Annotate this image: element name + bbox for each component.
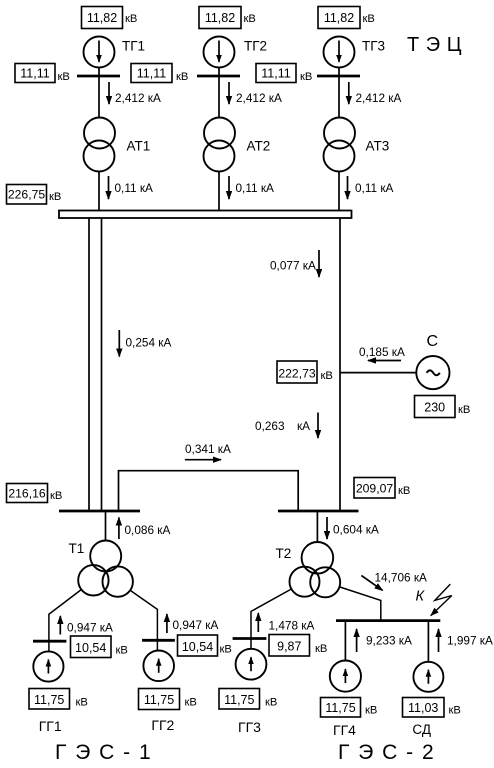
svg-text:С: С	[427, 333, 439, 350]
svg-text:10,54: 10,54	[182, 640, 213, 654]
svg-text:АТ2: АТ2	[247, 139, 271, 154]
voltage box 11,82 (TG1)	[82, 7, 138, 29]
transformer АТ3	[324, 118, 390, 172]
svg-text:0,11 кА: 0,11 кА	[236, 181, 275, 195]
current arrow 1,997 кА	[439, 629, 493, 652]
voltage box 10,54 (ГГ2)	[178, 635, 232, 656]
generator ТГ3	[324, 37, 386, 68]
wire ТГ1 to АТ1	[98, 68, 100, 118]
svg-text:11,82: 11,82	[205, 11, 235, 25]
wire АТ3 to busbar	[338, 171, 340, 210]
svg-text:9,87: 9,87	[277, 640, 301, 654]
svg-text:кВ: кВ	[125, 13, 137, 25]
wire Т1 to ГГ1	[49, 590, 82, 652]
current arrow 1,478 кА (ГГ3)	[258, 613, 314, 633]
svg-text:11,11: 11,11	[261, 67, 290, 81]
svg-text:0,086 кА: 0,086 кА	[125, 523, 171, 537]
wire bus to СД	[427, 622, 429, 662]
svg-text:2,412 кА: 2,412 кА	[115, 91, 161, 105]
svg-text:СД: СД	[412, 722, 431, 737]
current arrow 0,185 кА	[359, 345, 405, 361]
current arrow 0,11 кА (col 2)	[229, 176, 274, 199]
generator ГГ4	[330, 661, 361, 739]
svg-text:кВ: кВ	[244, 13, 256, 25]
voltage box 11,82 (TG2)	[199, 7, 256, 29]
wire АТ1 to busbar	[98, 171, 100, 210]
current arrow 2,412 кА (col 3)	[349, 82, 402, 105]
svg-text:11,03: 11,03	[408, 701, 438, 715]
wire double-circuit line left a	[88, 218, 90, 510]
svg-text:9,233 кА: 9,233 кА	[366, 634, 412, 648]
svg-text:11,82: 11,82	[87, 11, 117, 25]
svg-text:0,604 кА: 0,604 кА	[333, 523, 379, 537]
voltage box 11,75 (ГГ3)	[219, 689, 277, 710]
generator ГГ2	[143, 651, 174, 734]
svg-text:кВ: кВ	[185, 697, 197, 709]
svg-text:кВ: кВ	[49, 191, 61, 203]
current arrow 14,706 кА	[361, 571, 427, 591]
system source C	[416, 333, 449, 389]
wire ТГ2 to АТ2	[218, 68, 220, 118]
svg-text:кА: кА	[297, 419, 310, 433]
wire node to system C	[340, 372, 416, 374]
svg-text:кВ: кВ	[315, 643, 327, 655]
transformer Т1	[69, 541, 133, 597]
svg-text:11,11: 11,11	[20, 67, 49, 81]
svg-text:ГГ3: ГГ3	[238, 719, 261, 735]
svg-text:0,947 кА: 0,947 кА	[67, 621, 113, 635]
bus ГЭС-1 HV	[59, 510, 140, 513]
wire right line	[339, 218, 341, 510]
svg-text:кВ: кВ	[458, 404, 470, 416]
svg-text:222,73: 222,73	[278, 367, 315, 381]
node tick ГГ3	[233, 637, 267, 640]
wire Т2 to ГЭС-2 bus	[340, 587, 381, 620]
svg-text:2,412 кА: 2,412 кА	[236, 91, 282, 105]
svg-text:ТГ3: ТГ3	[362, 39, 385, 54]
svg-text:230: 230	[424, 401, 445, 415]
svg-text:0,263: 0,263	[255, 419, 285, 433]
short-circuit К lightning	[416, 584, 452, 616]
svg-text:1,997 кА: 1,997 кА	[447, 634, 493, 648]
node tick ГГ2	[142, 639, 175, 642]
svg-text:кВ: кВ	[365, 705, 377, 717]
wire tie line	[119, 471, 299, 510]
svg-text:0,11 кА: 0,11 кА	[115, 181, 154, 195]
svg-text:кВ: кВ	[176, 71, 188, 83]
svg-text:0,254 кА: 0,254 кА	[126, 336, 172, 350]
svg-text:ГГ4: ГГ4	[333, 722, 356, 738]
wire Т2 to ГГ3	[251, 589, 291, 649]
current arrow 0,086 кА	[119, 518, 171, 540]
svg-text:АТ1: АТ1	[127, 139, 151, 154]
wire АТ2 to busbar	[218, 171, 220, 210]
svg-text:АТ3: АТ3	[366, 139, 390, 154]
voltage box 11,75 (ГГ2)	[139, 689, 197, 710]
wire bus to Т2	[316, 512, 318, 542]
current arrow 0,341 кА	[185, 442, 231, 460]
svg-text:Т1: Т1	[69, 541, 85, 556]
current arrow 9,233 кА	[357, 629, 412, 652]
wire Т1 to ГГ2	[130, 590, 157, 650]
wire double-circuit line left b	[101, 218, 103, 510]
current arrow 0,947 кА (ГГ1)	[60, 616, 113, 635]
voltage box 209,07	[354, 478, 410, 499]
svg-text:11,75: 11,75	[325, 701, 355, 715]
current arrow 0,11 кА (col 1)	[109, 176, 154, 199]
voltage box 11,75 (ГГ4)	[321, 698, 378, 718]
svg-text:ТГ1: ТГ1	[122, 39, 145, 54]
svg-text:0,185 кА: 0,185 кА	[359, 345, 405, 359]
current arrow 0,254 кА	[119, 330, 171, 357]
svg-text:11,75: 11,75	[144, 693, 174, 707]
node tick ТГ2	[197, 75, 240, 78]
svg-text:0,341 кА: 0,341 кА	[185, 442, 231, 456]
current arrow 0,604 кА	[327, 517, 379, 539]
bus right HV	[278, 510, 359, 513]
svg-text:209,07: 209,07	[356, 482, 393, 496]
voltage box 11,03 (СД)	[403, 698, 461, 718]
svg-text:Т2: Т2	[276, 546, 292, 561]
svg-text:К: К	[416, 589, 426, 605]
node tick ГГ1	[33, 640, 66, 643]
current arrow 2,412 кА (col 1)	[109, 82, 161, 105]
svg-text:кВ: кВ	[449, 705, 461, 717]
voltage box 11,82 (TG3)	[318, 7, 375, 29]
svg-text:кВ: кВ	[116, 645, 128, 657]
generator ГГ3	[236, 649, 267, 735]
current arrow 2,412 кА (col 2)	[229, 82, 282, 105]
generator ТГ2	[204, 37, 268, 68]
svg-text:0,947 кА: 0,947 кА	[173, 618, 219, 632]
node tick ТГ1	[77, 75, 120, 78]
wire ТГ3 to АТ3	[338, 68, 340, 118]
svg-text:кВ: кВ	[321, 370, 333, 382]
node tick ТГ3	[317, 75, 360, 78]
svg-text:11,75: 11,75	[224, 693, 254, 707]
svg-text:ТГ2: ТГ2	[244, 39, 267, 54]
voltage box 11,11 (TG2)	[131, 64, 188, 84]
svg-text:11,75: 11,75	[34, 693, 64, 707]
svg-text:кВ: кВ	[220, 644, 232, 656]
voltage box 11,11 (TG3)	[256, 64, 312, 84]
svg-text:кВ: кВ	[50, 490, 62, 502]
current arrow 0,11 кА (col 3)	[348, 176, 394, 199]
svg-text:226,75: 226,75	[8, 188, 45, 202]
svg-text:Г Э С - 1: Г Э С - 1	[55, 741, 152, 764]
svg-text:кВ: кВ	[398, 485, 410, 497]
generator ГГ1	[33, 651, 63, 734]
svg-text:11,11: 11,11	[137, 67, 166, 81]
current arrow 0,263 кА	[255, 413, 318, 439]
voltage box 11,75 (ГГ1)	[29, 689, 88, 710]
svg-text:кВ: кВ	[265, 697, 277, 709]
svg-text:ГГ2: ГГ2	[151, 717, 174, 733]
voltage box 216,16	[7, 484, 63, 503]
svg-text:кВ: кВ	[363, 13, 375, 25]
wire bus to Т1	[105, 512, 107, 541]
svg-text:1,478 кА: 1,478 кА	[269, 619, 315, 633]
voltage box 222,73	[277, 361, 333, 383]
generator ТГ1	[84, 37, 146, 68]
transformer АТ2	[204, 118, 271, 172]
svg-text:0,11 кА: 0,11 кА	[355, 181, 394, 195]
voltage box 226,75	[7, 185, 62, 205]
voltage box 230	[415, 396, 471, 418]
current arrow 0,947 кА (ГГ2)	[167, 614, 219, 633]
svg-text:ГГ1: ГГ1	[39, 718, 62, 734]
svg-text:кВ: кВ	[58, 71, 70, 83]
wire bus to ГГ4	[344, 622, 346, 661]
svg-text:кВ: кВ	[300, 71, 312, 83]
voltage box 11,11 (TG1)	[15, 64, 70, 84]
svg-text:14,706 кА: 14,706 кА	[375, 571, 428, 585]
current arrow 0,077 кА	[270, 250, 319, 277]
voltage box 10,54 (ГГ1)	[71, 636, 128, 658]
svg-text:кВ: кВ	[76, 697, 88, 709]
svg-text:Г Э С - 2: Г Э С - 2	[338, 741, 435, 764]
transformer Т2	[276, 542, 341, 597]
svg-text:Т Э Ц: Т Э Ц	[407, 34, 462, 56]
voltage box 9,87 (ГГ3)	[269, 635, 327, 657]
svg-text:2,412 кА: 2,412 кА	[356, 91, 402, 105]
busbar 220 кВ	[59, 211, 352, 219]
svg-text:0,077 кА: 0,077 кА	[270, 259, 316, 273]
svg-text:11,82: 11,82	[324, 11, 354, 25]
motor СД	[412, 662, 443, 737]
transformer АТ1	[84, 118, 151, 172]
svg-text:216,16: 216,16	[8, 487, 45, 501]
svg-text:10,54: 10,54	[75, 641, 106, 655]
bus ГЭС-2 LV	[336, 619, 440, 622]
